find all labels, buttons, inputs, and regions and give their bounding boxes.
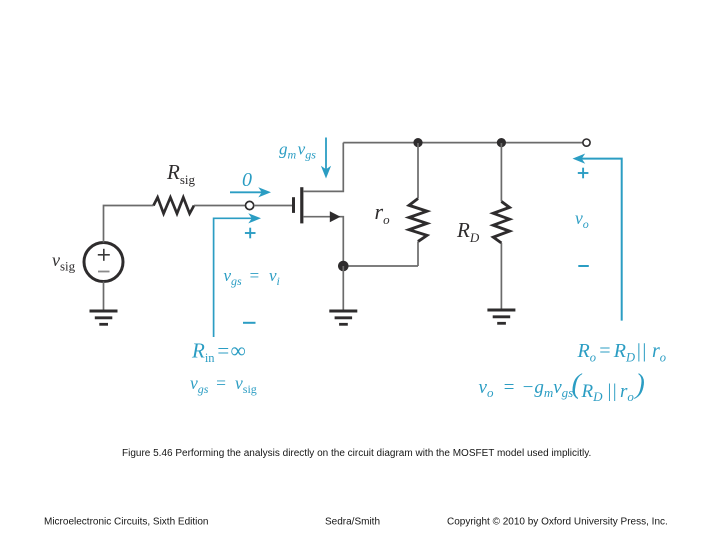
resistor R_sig bbox=[154, 197, 195, 213]
wire gate node to MOSFET gate bbox=[254, 205, 292, 207]
svg-text:vgs=vi: vgs=vi bbox=[224, 266, 280, 288]
gate node (open circle) bbox=[246, 201, 254, 209]
wire v_sig bottom to ground bbox=[103, 282, 105, 311]
wire drain rail (top) bbox=[343, 142, 583, 144]
svg-text:ro: ro bbox=[375, 199, 391, 227]
svg-text:vo=−gmvgs(RD||ro): vo=−gmvgs(RD||ro) bbox=[479, 369, 645, 404]
label + (gate, teal) bbox=[245, 228, 256, 239]
svg-text:vgs=vsig: vgs=vsig bbox=[190, 373, 257, 396]
ground (v_sig) bbox=[90, 311, 118, 324]
svg-text:vsig: vsig bbox=[52, 250, 76, 274]
svg-text:Rsig: Rsig bbox=[166, 160, 195, 187]
wire v_sig top to R_sig bbox=[104, 206, 154, 243]
output node (open circle) bbox=[583, 139, 590, 146]
svg-text:Figure 5.46 Performing the ana: Figure 5.46 Performing the analysis dire… bbox=[122, 448, 591, 459]
voltage source v_sig bbox=[84, 243, 123, 282]
node dot (r_o top) bbox=[413, 138, 422, 147]
svg-text:RD: RD bbox=[456, 218, 480, 245]
svg-text:Copyright © 2010 by Oxford Uni: Copyright © 2010 by Oxford University Pr… bbox=[447, 517, 668, 528]
label − (output, teal) bbox=[578, 265, 589, 267]
arrow 0 (right) bbox=[230, 187, 271, 197]
wire r_o bottom to source node bbox=[343, 265, 418, 267]
svg-text:Sedra/Smith: Sedra/Smith bbox=[325, 517, 380, 528]
resistor r_o bbox=[409, 143, 427, 266]
svg-text:Ro=RD||ro: Ro=RD||ro bbox=[577, 340, 667, 365]
resistor R_D bbox=[493, 143, 509, 310]
svg-text:Microelectronic Circuits, Sixt: Microelectronic Circuits, Sixth Edition bbox=[44, 517, 209, 528]
svg-text:gmvgs: gmvgs bbox=[279, 140, 316, 162]
svg-text:vo: vo bbox=[575, 208, 589, 231]
wire source node to ground bbox=[342, 266, 344, 310]
wire R_sig to gate node bbox=[194, 205, 245, 207]
arrow v_o bracket (teal) bbox=[573, 154, 622, 321]
arrow v_gs (bent, teal) bbox=[214, 213, 261, 337]
transistor Q1 (MOSFET) bbox=[294, 143, 344, 266]
arrow g_m v_gs (down) bbox=[321, 138, 331, 179]
ground (source) bbox=[329, 311, 357, 324]
node dot (R_D top) bbox=[497, 138, 506, 147]
label + (output, teal) bbox=[578, 168, 589, 179]
label − (gate, teal) bbox=[243, 322, 256, 324]
svg-text:0: 0 bbox=[242, 169, 252, 191]
svg-text:Rin=∞: Rin=∞ bbox=[191, 338, 246, 365]
node dot (source) bbox=[338, 261, 349, 272]
ground (R_D) bbox=[487, 310, 515, 323]
